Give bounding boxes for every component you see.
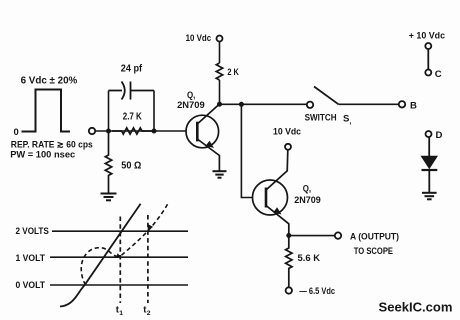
label D xyxy=(436,130,443,141)
resistor 2.7K xyxy=(112,128,154,134)
terminal -6.5 Vdc xyxy=(286,287,292,293)
svg-text:— 6.5 Vdc: — 6.5 Vdc xyxy=(299,286,335,297)
junction node rail xyxy=(239,102,244,107)
graph dashed rising curve xyxy=(122,202,169,255)
svg-text:10 Vdc: 10 Vdc xyxy=(186,33,212,44)
label Q1 xyxy=(187,90,196,101)
label 2.7 K xyxy=(123,112,143,123)
svg-text:10 Vdc: 10 Vdc xyxy=(273,126,302,137)
junction node right xyxy=(152,129,157,134)
svg-text:A (OUTPUT): A (OUTPUT) xyxy=(350,231,399,242)
terminal B xyxy=(399,101,405,107)
wire 2K to collector junction xyxy=(219,80,221,104)
graph line 0 volt xyxy=(50,284,188,286)
label 6 Vdc ± 20% xyxy=(21,76,78,87)
switch S1 xyxy=(307,87,399,109)
svg-text:2: 2 xyxy=(147,310,151,317)
svg-text:1 VOLT: 1 VOLT xyxy=(16,253,46,264)
label 10 Vdc Q2 xyxy=(273,126,302,137)
junction node collector xyxy=(217,102,222,107)
wire left branch riser xyxy=(108,91,110,132)
svg-text:1: 1 xyxy=(119,310,123,317)
terminal A xyxy=(335,232,341,238)
wire right branch riser xyxy=(153,91,155,132)
terminal C xyxy=(425,70,431,76)
label t2 xyxy=(143,305,151,318)
svg-text:2N709: 2N709 xyxy=(177,100,205,111)
ground below Q1 emitter xyxy=(213,171,227,178)
graph line 2 volts xyxy=(52,230,188,232)
diode CR1 xyxy=(421,156,439,170)
transistor Q2 2N709 xyxy=(253,150,289,236)
wire rail to switch xyxy=(220,103,308,105)
label REP. RATE >= 60 cps xyxy=(11,139,93,150)
graph dashed bump curve xyxy=(81,248,117,285)
label 50 ohm xyxy=(121,160,141,171)
svg-text:6 Vdc ± 20%: 6 Vdc ± 20% xyxy=(21,76,78,87)
svg-text:B: B xyxy=(410,100,417,111)
arrow at t2 on 2 volts xyxy=(148,224,154,231)
svg-text:0: 0 xyxy=(14,127,19,138)
transistor Q1 2N709 xyxy=(186,104,220,171)
svg-text:5.6 K: 5.6 K xyxy=(298,253,321,264)
svg-text:0 VOLT: 0 VOLT xyxy=(16,280,46,291)
resistor 50 ohm xyxy=(105,131,111,193)
svg-text:2 VOLTS: 2 VOLTS xyxy=(16,226,50,237)
svg-text:TO SCOPE: TO SCOPE xyxy=(354,246,394,257)
terminal +10Vdc top xyxy=(425,43,431,49)
label B xyxy=(410,100,417,111)
svg-text:2 K: 2 K xyxy=(227,67,239,78)
Q1 emitter arrow xyxy=(206,141,214,148)
svg-text:Q,: Q, xyxy=(303,184,312,195)
graph solid ramp curve xyxy=(60,204,141,307)
supply terminal 10 Vdc (Q2 collector) xyxy=(285,144,291,150)
dashed vertical t2 xyxy=(147,215,149,303)
ground below 50 ohm xyxy=(101,194,117,201)
label -6.5 Vdc xyxy=(299,286,335,297)
label 2 K xyxy=(227,67,239,78)
svg-text:2N709: 2N709 xyxy=(294,195,321,206)
wire diode to ground xyxy=(428,170,430,192)
ground below diode xyxy=(422,193,437,200)
label C xyxy=(435,69,442,80)
wire +10Vdc to C xyxy=(427,49,429,70)
label Q2 xyxy=(303,184,312,195)
svg-text:24 pf: 24 pf xyxy=(121,64,143,75)
svg-text:SeekIC.com: SeekIC.com xyxy=(379,300,453,315)
svg-text:,: , xyxy=(350,119,352,126)
input terminal xyxy=(89,128,95,134)
svg-text:2.7 K: 2.7 K xyxy=(123,112,143,123)
pulse waveform input signal xyxy=(22,90,71,132)
svg-text:PW = 100 nsec: PW = 100 nsec xyxy=(10,150,76,161)
wire D to diode xyxy=(428,137,430,156)
terminal D xyxy=(426,131,432,137)
junction node left xyxy=(106,129,111,134)
svg-text:SWITCH: SWITCH xyxy=(305,112,337,123)
wire supply to 2K xyxy=(219,42,221,64)
resistor 5.6K xyxy=(286,236,292,288)
label 2N709 Q1 xyxy=(177,100,205,111)
supply terminal 10 Vdc (Q1 collector) xyxy=(217,36,223,42)
label 24 pf xyxy=(121,64,143,75)
label TO SCOPE xyxy=(354,246,394,257)
svg-text:C: C xyxy=(435,69,442,80)
Q2 emitter arrow xyxy=(273,207,281,214)
label +10 Vdc xyxy=(409,31,446,42)
label 1 VOLT xyxy=(16,253,46,264)
junction node emitter output xyxy=(286,233,291,238)
label 0 VOLT xyxy=(16,280,46,291)
svg-text:D: D xyxy=(436,130,443,141)
wire rail down to Q2 base xyxy=(241,104,252,197)
label t1 xyxy=(116,305,124,318)
label PW = 100 nsec xyxy=(10,150,76,161)
wire input to Q1 base xyxy=(95,130,186,132)
svg-text:50 Ω: 50 Ω xyxy=(121,160,141,171)
watermark SeekIC.com xyxy=(379,300,453,315)
label A (OUTPUT) xyxy=(350,231,399,242)
svg-text:+ 10 Vdc: + 10 Vdc xyxy=(409,31,446,42)
label 10 Vdc xyxy=(186,33,212,44)
wire to output A xyxy=(289,235,335,237)
label SWITCH S1 xyxy=(305,112,352,125)
dashed vertical t1 xyxy=(119,217,121,304)
graph line 1 volt xyxy=(50,256,188,258)
label 5.6 K xyxy=(298,253,321,264)
arrow at t1 on 1 volt xyxy=(116,253,122,257)
label 0 xyxy=(14,127,19,138)
resistor 2K xyxy=(216,63,222,80)
capacitor 24 pf xyxy=(109,82,155,100)
label 2N709 Q2 xyxy=(294,195,321,206)
label 2 VOLTS xyxy=(16,226,50,237)
